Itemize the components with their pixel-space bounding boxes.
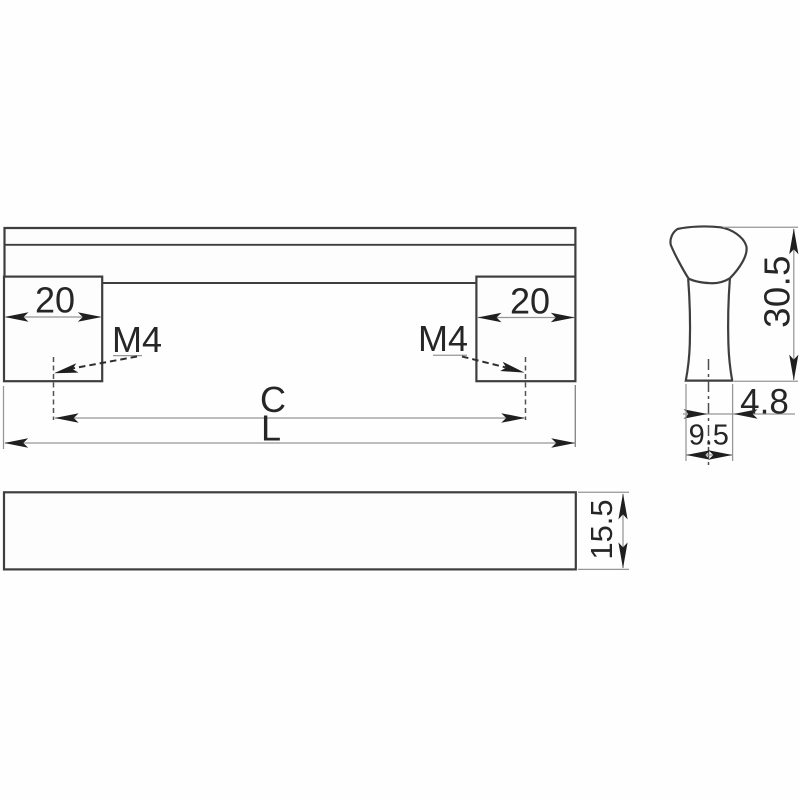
left foot box [4,277,102,382]
extension line front top [578,491,629,493]
bar bottom edge [101,282,478,284]
M4 right leader [462,357,506,368]
dim line 4.8 [683,413,795,415]
M4 left leader [72,357,137,369]
right foot box [476,277,575,382]
M4 right shoulder [433,354,467,356]
dim line C [55,417,524,419]
hole center line right [525,357,527,420]
extension line knob bottom [734,380,798,382]
extension line left [3,386,5,449]
dim line 20 left [6,316,100,318]
bar top-view outline [5,228,576,283]
svg-text:M4: M4 [418,318,468,359]
M4 left shoulder [113,355,142,357]
extension line 9.5 right [732,384,734,461]
svg-text:L: L [261,407,281,448]
knob center line [708,359,710,466]
extension line knob top [723,226,798,228]
bar highlight line [5,244,576,246]
knob cap profile [670,226,746,283]
knob stem profile [686,279,732,381]
svg-text:9.5: 9.5 [689,420,729,452]
dim line 30.5 [793,229,795,380]
dim line L [5,442,575,444]
svg-text:20: 20 [510,281,550,322]
dim line 15.5 [622,494,624,568]
svg-text:20: 20 [35,280,75,321]
extension line 9.5 left [685,384,687,461]
front view bar rectangle [4,492,576,569]
svg-text:15.5: 15.5 [584,499,619,559]
extension line right [574,385,576,447]
extension line front bottom [578,568,629,570]
svg-text:30.5: 30.5 [757,255,798,328]
svg-text:M4: M4 [112,319,162,360]
dim line 20 right [478,317,574,319]
hole center line left [53,357,55,420]
dim line 9.5 [686,454,733,456]
svg-text:4.8: 4.8 [740,383,789,422]
